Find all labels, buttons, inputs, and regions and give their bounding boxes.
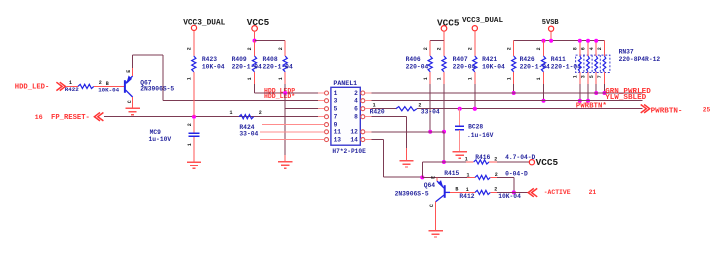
wire R409 to pin1 xyxy=(254,72,256,84)
svg-text:220-04: 220-04 xyxy=(406,64,429,71)
resistor R411 xyxy=(543,41,545,56)
junction xyxy=(586,39,590,43)
wire Q67 emitter to pin3 net xyxy=(132,55,134,68)
svg-text:25: 25 xyxy=(703,107,711,114)
junction xyxy=(586,99,590,103)
svg-text:220-1-04: 220-1-04 xyxy=(551,64,581,71)
svg-text:1: 1 xyxy=(465,157,468,163)
svg-text:6: 6 xyxy=(354,106,358,113)
svg-text:2N3906S-5: 2N3906S-5 xyxy=(140,86,174,93)
junction xyxy=(542,99,546,103)
power VCC5 xyxy=(529,160,534,165)
svg-text:PWRBTN-: PWRBTN- xyxy=(651,107,683,115)
svg-text:4: 4 xyxy=(354,98,358,105)
pin 9 PANEL1 xyxy=(325,123,329,127)
wire xyxy=(489,161,497,163)
svg-text:10K-04: 10K-04 xyxy=(482,64,505,71)
wire R408 down xyxy=(284,72,286,84)
svg-text:2: 2 xyxy=(468,47,474,50)
resistor R422 xyxy=(78,84,94,88)
svg-text:VCC3_DUAL: VCC3_DUAL xyxy=(183,19,225,27)
svg-text:E: E xyxy=(126,70,132,73)
wire xyxy=(193,31,195,57)
junction xyxy=(594,91,598,95)
wire R406 down to pin12 net xyxy=(429,72,431,84)
wire PWRBTN rail xyxy=(417,108,643,110)
svg-text:5: 5 xyxy=(589,75,595,78)
transistor Q67 xyxy=(125,76,133,97)
svg-text:2: 2 xyxy=(354,90,358,97)
junction xyxy=(192,115,196,119)
pin 3 PANEL1 xyxy=(325,99,329,103)
resistor R426 xyxy=(513,41,515,56)
svg-text:3: 3 xyxy=(581,75,587,78)
pin 2 PANEL1 xyxy=(361,91,365,95)
wire pin8 to ground xyxy=(365,116,372,118)
svg-text:1: 1 xyxy=(536,77,542,80)
junction xyxy=(442,130,446,134)
resistor R415 xyxy=(475,175,490,179)
svg-text:2: 2 xyxy=(423,47,429,50)
svg-text:1: 1 xyxy=(278,77,284,80)
junction xyxy=(420,175,424,179)
pin 14 PANEL1 xyxy=(361,138,365,142)
svg-text:R423: R423 xyxy=(202,56,217,63)
svg-text:10K-04: 10K-04 xyxy=(98,86,119,93)
svg-text:220-1-04: 220-1-04 xyxy=(263,64,293,71)
wire R415 row xyxy=(422,176,467,178)
svg-text:1: 1 xyxy=(468,77,474,80)
wire 5VSB rail xyxy=(514,40,605,42)
wire xyxy=(193,137,195,162)
svg-text:2: 2 xyxy=(187,47,193,50)
wire R411 to YLW net xyxy=(543,72,545,84)
junction xyxy=(594,39,598,43)
svg-text:11: 11 xyxy=(334,129,342,136)
svg-text:B: B xyxy=(455,187,458,193)
resistor R416 xyxy=(474,160,489,164)
pin 8 PANEL1 xyxy=(361,115,365,119)
ground xyxy=(187,162,201,168)
svg-text:1: 1 xyxy=(187,143,193,146)
svg-text:FP_RESET-: FP_RESET- xyxy=(51,114,90,122)
svg-text:12: 12 xyxy=(350,129,358,136)
capacitor MC9 xyxy=(193,119,195,133)
RN37 resistor element 1 xyxy=(579,41,581,56)
junction xyxy=(473,107,477,111)
svg-text:1: 1 xyxy=(437,77,443,80)
resistor R408 xyxy=(283,56,287,72)
port arrow FP_RESET- xyxy=(94,113,100,121)
junction xyxy=(578,99,582,103)
ground xyxy=(125,108,139,114)
svg-text:R411: R411 xyxy=(551,56,566,63)
svg-text:R426: R426 xyxy=(520,56,535,63)
junction xyxy=(512,190,516,194)
wire R412 row / Q64 base xyxy=(450,191,467,193)
wire RN37 pin7 to GRN xyxy=(603,41,605,56)
connector PANEL1 xyxy=(331,87,360,145)
junction xyxy=(283,91,287,95)
svg-text:14: 14 xyxy=(350,136,358,143)
svg-text:-ACTIVE: -ACTIVE xyxy=(544,189,571,196)
svg-text:7: 7 xyxy=(334,114,338,121)
resistor R423 xyxy=(192,56,196,72)
pin 4 PANEL1 xyxy=(361,99,365,103)
pin 7 PANEL1 xyxy=(325,115,329,119)
ground xyxy=(453,152,467,158)
wire xyxy=(94,85,124,87)
svg-text:R416: R416 xyxy=(475,154,490,161)
junction xyxy=(253,39,257,43)
svg-text:33-04: 33-04 xyxy=(421,109,440,116)
svg-text:VCC5: VCC5 xyxy=(247,17,270,28)
RN37 resistor element 4 xyxy=(603,41,605,56)
stub pin9 xyxy=(262,124,325,126)
resistor R406 xyxy=(428,56,432,72)
svg-text:2: 2 xyxy=(99,80,102,86)
svg-text:220-1-04: 220-1-04 xyxy=(232,64,262,71)
stub pin13 xyxy=(260,139,325,141)
wire RN37 pin5 to GRN xyxy=(595,72,597,84)
capacitor BC28 xyxy=(459,109,461,126)
svg-text:H7*2-P10E: H7*2-P10E xyxy=(332,148,366,155)
wire xyxy=(443,31,445,40)
wire RN37 pin3 to YLW xyxy=(587,72,589,84)
wire xyxy=(490,191,497,193)
ground xyxy=(428,231,442,237)
svg-text:C: C xyxy=(429,204,435,207)
svg-text:R420: R420 xyxy=(370,109,385,116)
wire xyxy=(550,31,552,40)
svg-text:Q64: Q64 xyxy=(424,182,436,189)
svg-text:10K-04: 10K-04 xyxy=(202,64,225,71)
emitter stub Q64 xyxy=(436,177,438,181)
junction xyxy=(512,91,516,95)
svg-text:1: 1 xyxy=(467,172,470,178)
svg-text:2: 2 xyxy=(259,110,262,116)
junction xyxy=(458,107,462,111)
svg-text:E: E xyxy=(430,176,436,179)
svg-text:R407: R407 xyxy=(453,56,468,63)
wire xyxy=(459,130,461,152)
svg-text:13: 13 xyxy=(334,136,342,143)
junction xyxy=(442,160,446,164)
svg-text:33-04: 33-04 xyxy=(239,130,258,137)
svg-text:1: 1 xyxy=(423,77,429,80)
junction xyxy=(428,130,432,134)
pin 13 PANEL1 xyxy=(325,138,329,142)
svg-text:RN37: RN37 xyxy=(619,48,634,55)
svg-text:1: 1 xyxy=(506,77,512,80)
wire R416 row xyxy=(422,161,444,163)
svg-text:21: 21 xyxy=(589,189,597,196)
pin 12 PANEL1 xyxy=(361,130,365,134)
resistor network RN37 xyxy=(576,55,610,72)
svg-text:.1u-16V: .1u-16V xyxy=(467,132,494,139)
svg-text:5: 5 xyxy=(334,106,338,113)
svg-text:1: 1 xyxy=(466,187,469,193)
svg-text:2: 2 xyxy=(506,47,512,50)
svg-text:3: 3 xyxy=(334,98,338,105)
wire R407 down xyxy=(443,72,445,84)
wire PWRBTN net pin6 to R420 xyxy=(365,108,372,110)
junction xyxy=(578,39,582,43)
wire pin14 net xyxy=(365,139,372,141)
pin 5 PANEL1 xyxy=(325,107,329,111)
junction xyxy=(602,91,606,95)
wire pin5 net xyxy=(285,108,318,110)
wire xyxy=(474,31,476,56)
svg-text:6: 6 xyxy=(581,47,587,50)
pin 6 PANEL1 xyxy=(361,107,365,111)
svg-text:VCC5: VCC5 xyxy=(437,17,460,28)
svg-text:2: 2 xyxy=(278,47,284,50)
resistor R409 xyxy=(252,56,256,72)
pin 11 PANEL1 xyxy=(325,130,329,134)
svg-text:R412: R412 xyxy=(459,193,474,200)
wire xyxy=(474,72,476,84)
svg-text:1: 1 xyxy=(572,75,578,78)
svg-text:YLW_SBLED: YLW_SBLED xyxy=(605,94,646,102)
junction xyxy=(542,39,546,43)
ground xyxy=(399,161,413,167)
wire pin12 net xyxy=(365,131,372,133)
svg-text:1: 1 xyxy=(334,90,338,97)
svg-text:R415: R415 xyxy=(444,170,459,177)
wire xyxy=(490,176,497,178)
pin 1 PANEL1 xyxy=(325,91,329,95)
wire to ground xyxy=(284,93,286,155)
svg-text:2: 2 xyxy=(597,47,603,50)
svg-text:PWRBTN*: PWRBTN* xyxy=(576,103,607,111)
svg-text:1: 1 xyxy=(187,77,193,80)
svg-text:R406: R406 xyxy=(406,56,421,63)
svg-text:1: 1 xyxy=(69,80,72,86)
wire xyxy=(254,31,256,40)
port arrow ACTIVE xyxy=(528,188,534,196)
ground xyxy=(278,162,292,168)
port arrow PWRBTN- xyxy=(641,105,647,113)
wire R426 to GRN net xyxy=(513,72,515,84)
svg-text:1: 1 xyxy=(230,110,233,116)
svg-text:R421: R421 xyxy=(482,56,497,63)
svg-text:HDD_LED-: HDD_LED- xyxy=(15,83,50,91)
wire GRN_PWRLED net xyxy=(365,92,372,94)
svg-text:10K-04: 10K-04 xyxy=(498,193,521,200)
svg-text:8: 8 xyxy=(572,47,578,50)
svg-text:2: 2 xyxy=(536,47,542,50)
svg-text:0-04-D: 0-04-D xyxy=(505,171,528,178)
svg-text:HDD_LEDP: HDD_LEDP xyxy=(264,88,295,95)
svg-text:R409: R409 xyxy=(232,56,247,63)
RN37 resistor element 2 xyxy=(587,41,589,56)
resistor R421 xyxy=(473,56,477,72)
svg-text:VCC5: VCC5 xyxy=(536,157,559,168)
svg-text:R408: R408 xyxy=(263,56,278,63)
svg-text:220-8P4R-12: 220-8P4R-12 xyxy=(619,56,661,63)
resistor R412 xyxy=(475,190,490,194)
svg-text:PANEL1: PANEL1 xyxy=(333,80,357,87)
svg-text:2N3906S-5: 2N3906S-5 xyxy=(395,190,429,197)
junction xyxy=(473,107,477,111)
junction xyxy=(549,39,553,43)
svg-text:16: 16 xyxy=(35,114,43,122)
svg-text:BC28: BC28 xyxy=(468,124,483,131)
svg-text:2: 2 xyxy=(187,123,193,126)
wire xyxy=(193,72,195,117)
svg-text:2: 2 xyxy=(437,47,443,50)
wire xyxy=(67,85,78,87)
RN37 resistor element 3 xyxy=(595,41,597,56)
svg-text:2: 2 xyxy=(247,47,253,50)
transistor Q64 xyxy=(436,181,450,202)
svg-text:R422: R422 xyxy=(65,86,79,93)
svg-text:9: 9 xyxy=(334,121,338,128)
wire FP_RESET xyxy=(104,116,318,118)
svg-text:8: 8 xyxy=(354,114,358,121)
svg-text:4: 4 xyxy=(589,47,595,50)
svg-text:2: 2 xyxy=(494,187,497,193)
svg-text:1: 1 xyxy=(247,77,253,80)
collector stub Q67 xyxy=(132,97,134,109)
port arrow HDD_LED- xyxy=(56,82,62,90)
svg-text:7: 7 xyxy=(597,75,603,78)
emitter stub Q67 xyxy=(132,68,134,76)
wire xyxy=(443,132,445,162)
wire RN37 pin1 to YLW xyxy=(579,72,581,84)
svg-text:1u-10V: 1u-10V xyxy=(149,136,172,143)
stub pin11 xyxy=(260,131,325,133)
wire YLW_SBLED net xyxy=(365,100,372,102)
svg-text:VCC3_DUAL: VCC3_DUAL xyxy=(462,17,503,25)
svg-text:C: C xyxy=(127,100,133,103)
resistor R407 xyxy=(442,56,446,72)
collector stub Q64 xyxy=(435,202,437,231)
wire xyxy=(255,40,286,42)
